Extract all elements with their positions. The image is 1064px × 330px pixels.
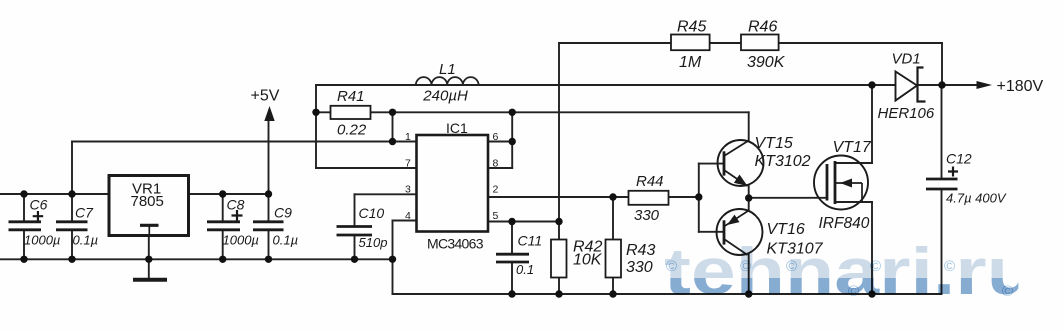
svg-text:330: 330 [634, 207, 660, 224]
svg-text:C7: C7 [75, 205, 94, 221]
svg-text:R45: R45 [677, 18, 706, 35]
svg-text:4: 4 [405, 210, 411, 222]
svg-text:VT15: VT15 [755, 135, 793, 152]
svg-text:1000µ: 1000µ [223, 233, 259, 248]
svg-text:6: 6 [493, 131, 499, 143]
svg-text:5: 5 [493, 210, 499, 222]
svg-text:C8: C8 [227, 197, 245, 213]
svg-text:HER106: HER106 [878, 105, 935, 122]
svg-text:R46: R46 [748, 18, 777, 35]
svg-text:0.22: 0.22 [337, 122, 367, 139]
svg-text:1000µ: 1000µ [24, 233, 60, 248]
svg-text:7: 7 [405, 158, 411, 170]
svg-text:2: 2 [493, 184, 499, 196]
svg-text:10K: 10K [573, 252, 603, 269]
svg-text:8: 8 [493, 158, 499, 170]
svg-text:R44: R44 [636, 173, 664, 190]
svg-text:VD1: VD1 [892, 51, 921, 68]
svg-text:MC34063: MC34063 [427, 236, 484, 252]
svg-text:C10: C10 [359, 205, 385, 221]
svg-text:KT3102: KT3102 [755, 153, 811, 170]
svg-text:C12: C12 [946, 151, 972, 167]
svg-text:IC1: IC1 [446, 120, 468, 136]
svg-text:R43: R43 [626, 242, 655, 259]
svg-text:R41: R41 [337, 88, 365, 105]
svg-text:+180V: +180V [997, 78, 1044, 95]
svg-text:1: 1 [405, 131, 411, 143]
svg-text:7805: 7805 [131, 193, 164, 210]
svg-text:4.7µ 400V: 4.7µ 400V [946, 191, 1007, 206]
svg-text:C6: C6 [30, 197, 48, 213]
svg-text:1M: 1M [679, 54, 702, 71]
svg-text:3: 3 [405, 184, 411, 196]
svg-text:330: 330 [626, 259, 653, 276]
svg-text:390K: 390K [747, 54, 786, 71]
svg-text:VT17: VT17 [833, 139, 872, 156]
svg-text:C11: C11 [518, 233, 543, 249]
svg-text:IRF840: IRF840 [819, 215, 870, 232]
svg-text:240µH: 240µH [422, 87, 468, 104]
svg-text:0.1µ: 0.1µ [73, 233, 99, 248]
svg-text:L1: L1 [439, 61, 456, 78]
svg-text:0.1µ: 0.1µ [273, 233, 299, 248]
svg-text:0.1: 0.1 [516, 262, 534, 277]
svg-text:510p: 510p [359, 235, 388, 250]
svg-text:C9: C9 [274, 205, 292, 221]
svg-text:+5V: +5V [251, 88, 280, 105]
